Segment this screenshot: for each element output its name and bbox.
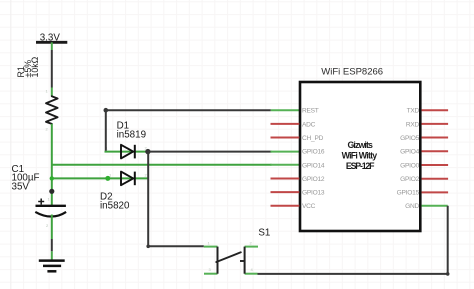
switch S1 contact tick (240, 260, 245, 262)
switch S1 stub bottom-right (245, 273, 258, 275)
svg-text:GPIO0: GPIO0 (400, 162, 419, 169)
switch S1 stub bottom-left (204, 273, 218, 275)
switch S1 stub top-left (204, 246, 218, 248)
pin stub VCC (271, 205, 300, 207)
svg-text:ADC: ADC (302, 121, 316, 128)
pin stub REST (271, 109, 300, 111)
svg-text:GPIO2: GPIO2 (400, 176, 419, 183)
svg-text:GPIO4: GPIO4 (400, 149, 419, 156)
pin stub GPIO14 (271, 164, 300, 166)
svg-text:TXD: TXD (407, 108, 420, 115)
svg-text:GPIO16: GPIO16 (302, 149, 325, 156)
wire power to R1 (51, 50, 53, 88)
pin stub GND (422, 205, 448, 207)
right pin labels (397, 108, 420, 211)
pin stub ADC (271, 123, 300, 125)
svg-text:VCC: VCC (302, 203, 316, 210)
junction D2 anode (105, 176, 110, 181)
pin stub RXD (422, 123, 449, 125)
corner dot switch wire (146, 245, 150, 249)
diode D1 label (117, 120, 146, 140)
wire node A vertical (51, 124, 53, 206)
ground stub (51, 251, 53, 260)
pin stub GPIO4 (422, 150, 449, 152)
switch S1 right pole (244, 247, 246, 274)
svg-text:in5819: in5819 (117, 129, 146, 140)
switch S1 actuator (216, 252, 241, 262)
svg-text:10kΩ: 10kΩ (30, 56, 40, 77)
diode D1 cathode bar (134, 145, 136, 159)
svg-text:WiFi Witty: WiFi Witty (342, 151, 378, 161)
pin stub CH_PD (271, 137, 300, 139)
capacitor C1 top plate (36, 205, 66, 207)
pin stub GPIO0 (422, 164, 449, 166)
power flag 3.3V bar (36, 41, 67, 44)
resistor R1 zigzag (46, 96, 58, 124)
svg-text:GPIO12: GPIO12 (302, 176, 325, 183)
svg-text:WiFi ESP8266: WiFi ESP8266 (321, 66, 383, 77)
svg-text:GND: GND (405, 203, 419, 210)
pin stub GPIO15 (422, 191, 449, 193)
wire to D2 anode (52, 177, 149, 179)
capacitor C1 curved plate (35, 212, 66, 217)
capacitor C1 bottom stub (51, 215, 53, 240)
resistor R1 top stub (51, 88, 53, 97)
wire D1 anode to REST corner (106, 110, 271, 151)
svg-text:S1: S1 (258, 228, 270, 239)
pin stub GPIO16 (271, 151, 300, 153)
switch S1 pin numbers (208, 240, 254, 272)
wire D1 row (105, 151, 148, 153)
diode D2 label (100, 192, 130, 212)
resistor R1 label (16, 56, 40, 77)
svg-text:GPIO5: GPIO5 (400, 135, 419, 142)
pin stub GPIO12 (271, 178, 300, 180)
junction node A / D2 wire (50, 176, 54, 180)
pin stub GPIO2 (422, 178, 449, 180)
svg-text:GPIO14: GPIO14 (302, 162, 325, 169)
pin stub GPIO5 (422, 137, 449, 139)
svg-text:REST: REST (302, 108, 319, 115)
pin stub TXD (422, 109, 449, 111)
diode D2 triangle (121, 172, 133, 186)
svg-text:Gizwits: Gizwits (348, 140, 373, 150)
IC U1 box (300, 82, 420, 231)
svg-text:in5820: in5820 (100, 200, 130, 211)
svg-text:RXD: RXD (406, 121, 420, 128)
wire C1 to ground (51, 239, 53, 251)
junction C1 top (49, 189, 54, 194)
switch S1 left pole (217, 247, 219, 274)
switch S1 stub top-right (245, 246, 258, 248)
corner dot GND wire (446, 272, 450, 276)
IC center label (342, 140, 378, 171)
svg-text:35V: 35V (12, 181, 30, 192)
left pin labels (302, 108, 325, 211)
capacitor C1 plus sign (38, 199, 44, 205)
ground symbol (39, 261, 65, 272)
diode D2 cathode bar (134, 172, 136, 186)
wire junction down to switch (148, 152, 204, 247)
corner dot REST wire (104, 108, 109, 113)
junction D1 cathode (145, 149, 150, 154)
pin stub GPIO13 (271, 191, 300, 193)
svg-text:CH_PD: CH_PD (302, 135, 324, 142)
capacitor C1 label (12, 164, 40, 193)
diode D1 triangle (121, 145, 133, 159)
power pin stub (51, 42, 53, 50)
svg-text:ESP-12F: ESP-12F (346, 161, 375, 171)
svg-text:GPIO13: GPIO13 (302, 190, 325, 197)
svg-text:GPIO15: GPIO15 (397, 190, 420, 197)
wire D1 junction to GPIO16 (148, 151, 272, 153)
wire GND to switch (258, 206, 448, 274)
wire to GPIO14 (52, 164, 272, 166)
